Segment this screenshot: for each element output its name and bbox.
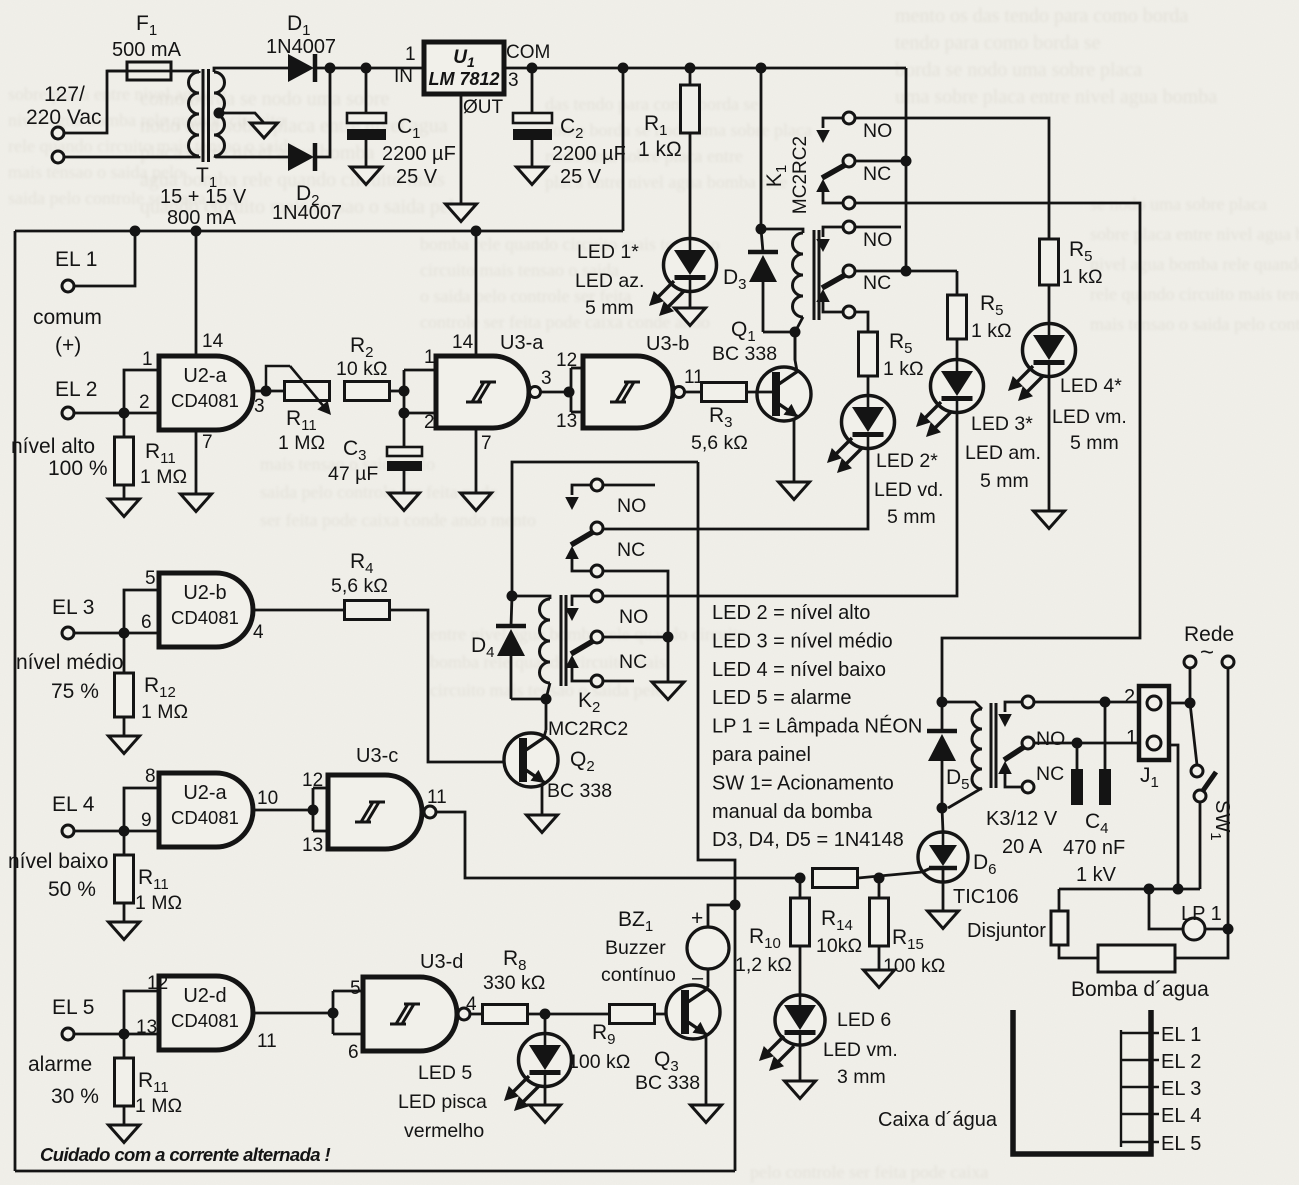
wire U1 com to ground [460, 94, 463, 204]
wire input to fuse [64, 71, 127, 133]
gate U2-d CD4081 [136, 973, 277, 1052]
comum + rail [15, 230, 623, 233]
svg-text:SW 1= Acionamento: SW 1= Acionamento [712, 772, 894, 794]
fuse F1 500 mA [107, 12, 199, 80]
svg-text:47 µF: 47 µF [328, 463, 378, 485]
svg-text:1 MΩ: 1 MΩ [278, 432, 325, 454]
wire +12V down to K1 NC rail [905, 68, 908, 271]
wire to U3-a pins [403, 370, 406, 413]
wire K1 com2 to R5 LED2 [855, 312, 868, 331]
K1 contact set 1 [816, 112, 892, 209]
K2 contact set 2 [565, 590, 648, 687]
tank electrode rail [1121, 1024, 1201, 1155]
ground D6 [928, 882, 959, 929]
svg-text:10 kΩ: 10 kΩ [336, 358, 387, 380]
svg-text:mais tensao o saida pelo contr: mais tensao o saida pelo controle [1090, 314, 1299, 334]
ground R12 [109, 717, 140, 754]
svg-text:127/: 127/ [44, 83, 85, 106]
svg-text:NC: NC [1036, 763, 1064, 785]
junction EL4 [119, 826, 130, 837]
svg-text:ser feita pode caixa conde and: ser feita pode caixa conde ando mento [260, 510, 536, 530]
electrode EL3 nivel medio [16, 596, 124, 703]
ground R11 EL4 [109, 903, 140, 940]
wire U3-c to SCR gate line [436, 812, 800, 878]
svg-text:LED 2*: LED 2* [876, 450, 938, 472]
svg-text:U3-c: U3-c [356, 745, 398, 767]
svg-text:NC: NC [863, 163, 891, 185]
svg-text:1: 1 [142, 349, 153, 370]
gate U2-c CD4081 (labelled U2-a) [141, 766, 278, 847]
svg-text:5 mm: 5 mm [887, 506, 936, 528]
ground LED1 [675, 291, 706, 326]
junction R8/LED5 [527, 1009, 609, 1020]
wire secondary bottom to D2 [214, 156, 288, 157]
resistor R9 100k [568, 1005, 655, 1074]
switch SW1 [1190, 703, 1233, 841]
svg-text:BC 338: BC 338 [635, 1072, 700, 1094]
pump feed wire [1059, 884, 1200, 895]
ground U1 [446, 204, 477, 222]
svg-text:13: 13 [302, 835, 323, 856]
resistor R5 1k (LED4) [1040, 238, 1103, 288]
svg-text:LED pisca: LED pisca [398, 1091, 487, 1113]
wire EL2 to U2-a pins [124, 370, 159, 413]
svg-text:EL 1: EL 1 [1161, 1024, 1201, 1046]
svg-text:5 mm: 5 mm [980, 470, 1029, 492]
svg-text:3: 3 [254, 396, 265, 417]
svg-text:13: 13 [556, 411, 577, 432]
wire K3 common to J1 [1034, 701, 1139, 704]
svg-text:12: 12 [147, 973, 168, 994]
svg-text:6: 6 [141, 612, 152, 633]
junction R15 top [874, 873, 885, 884]
svg-text:MC2RC2: MC2RC2 [790, 136, 811, 214]
junction R10 top [795, 873, 806, 884]
svg-text:9: 9 [141, 810, 152, 831]
svg-text:3: 3 [541, 368, 552, 389]
svg-text:EL 2: EL 2 [1161, 1051, 1201, 1073]
svg-text:1 kΩ: 1 kΩ [971, 320, 1012, 342]
svg-text:NO: NO [617, 495, 646, 517]
svg-text:2: 2 [424, 412, 435, 433]
relay K1 coil MC2RC2 [761, 136, 819, 332]
svg-text:TIC106: TIC106 [953, 886, 1019, 908]
ground C1 [351, 167, 382, 185]
transistor Q1 BC338 [712, 318, 811, 482]
svg-text:1N4007: 1N4007 [272, 202, 342, 224]
svg-text:5: 5 [350, 978, 361, 999]
svg-text:100 kΩ: 100 kΩ [568, 1051, 630, 1073]
K3 contact set [998, 696, 1065, 793]
svg-text:2: 2 [139, 392, 150, 413]
svg-text:LED 4*: LED 4* [1060, 375, 1122, 397]
svg-text:NO: NO [863, 229, 892, 251]
wire U3-a pin7 [475, 428, 478, 493]
wire U1 out [504, 67, 906, 70]
junction EL3 [119, 628, 130, 639]
caution note [40, 1144, 331, 1165]
svg-text:CD4081: CD4081 [171, 390, 239, 411]
legend text [712, 602, 922, 851]
wire input to transformer primary [64, 156, 199, 157]
svg-text:Caixa d´água: Caixa d´água [878, 1109, 998, 1131]
svg-text:CD4081: CD4081 [171, 1010, 239, 1031]
ground LED4 [1034, 511, 1065, 529]
ground C3 [389, 493, 420, 511]
svg-text:rele quando circuito mais tens: rele quando circuito mais tensao [1090, 284, 1299, 304]
wire U2-a out [253, 386, 285, 397]
wire EL3 to U2-b pins [124, 590, 159, 633]
ground LED5 [530, 1086, 561, 1123]
svg-text:5,6 kΩ: 5,6 kΩ [691, 432, 748, 454]
trimmer R11 1M [266, 366, 331, 454]
wire R2 to U3-a [389, 390, 404, 393]
svg-text:100 %: 100 % [48, 457, 108, 480]
svg-text:mais tensao o saida pelo: mais tensao o saida pelo [8, 162, 183, 182]
svg-text:1 MΩ: 1 MΩ [135, 892, 182, 914]
svg-text:+: + [691, 907, 703, 930]
svg-text:D3, D4, D5 = 1N4148: D3, D4, D5 = 1N4148 [712, 829, 904, 851]
wire K1 NC2 to R5 LED3 [855, 266, 957, 277]
transistor Q3 BC338 [635, 969, 720, 1105]
gate U2-a CD4081 [139, 331, 265, 453]
svg-text:rele quando circuito mais tens: rele quando circuito mais tensao o saida [8, 136, 296, 156]
diode D1 1N4007 [266, 12, 336, 82]
svg-text:6: 6 [348, 1042, 359, 1063]
junction R1 top [685, 63, 696, 74]
Rede AC terminals [1184, 623, 1234, 668]
svg-text:7: 7 [481, 433, 492, 454]
LED 2 green 5mm [827, 396, 943, 529]
regulator U1 LM7812 [394, 42, 550, 118]
junction K2 coil/D4 [507, 591, 518, 602]
ground R11 EL5 [109, 1106, 140, 1143]
svg-text:10: 10 [257, 788, 278, 809]
svg-text:EL 5: EL 5 [1161, 1133, 1201, 1155]
svg-text:1,2 kΩ: 1,2 kΩ [735, 954, 792, 976]
junction U3-a in [399, 386, 410, 397]
svg-text:11: 11 [257, 1031, 277, 1052]
resistor R5 1k (LED3) [948, 271, 1012, 342]
svg-text:sobre placa entre nivel agua: sobre placa entre nivel agua [8, 84, 209, 104]
U3-c output bubble [424, 806, 436, 818]
ground R11 EL2 [109, 485, 140, 517]
svg-text:220 Vac: 220 Vac [26, 106, 102, 129]
svg-text:1: 1 [1126, 727, 1137, 749]
svg-text:EL 2: EL 2 [55, 378, 97, 401]
svg-text:1 MΩ: 1 MΩ [141, 701, 188, 723]
junction EL2 [119, 408, 130, 419]
wire EL5 to U2-d pins [124, 991, 159, 1034]
svg-text:3: 3 [508, 70, 519, 91]
wire gate to D6 [858, 872, 922, 878]
svg-text:NO: NO [863, 120, 892, 142]
wire R1 to LED1 [689, 133, 692, 240]
svg-text:Bomba d´agua: Bomba d´agua [1071, 978, 1209, 1001]
gate U3-d Schmitt [348, 951, 477, 1063]
svg-text:COM: COM [506, 42, 550, 63]
diode D2 1N4007 [272, 143, 342, 224]
wire K2 com2 stub [603, 680, 634, 683]
svg-text:2: 2 [1124, 686, 1135, 708]
svg-text:1 MΩ: 1 MΩ [140, 466, 187, 488]
svg-text:EL 4: EL 4 [1161, 1105, 1201, 1127]
ground R15 [864, 946, 895, 988]
svg-text:U3-d: U3-d [420, 951, 463, 973]
svg-text:470 nF: 470 nF [1063, 837, 1125, 859]
diode D5 1N4148 [927, 702, 970, 808]
svg-text:LED 5: LED 5 [418, 1062, 472, 1084]
wire U3-d to R8 [470, 1013, 483, 1016]
svg-text:BC 338: BC 338 [712, 343, 777, 365]
ground Q2 [527, 815, 558, 833]
ground Q3 [691, 1105, 722, 1123]
svg-text:1: 1 [405, 44, 416, 65]
svg-text:25 V: 25 V [396, 166, 438, 188]
svg-text:mento os das tendo para como b: mento os das tendo para como borda [895, 5, 1188, 27]
svg-text:nivel agua bomba rele quando c: nivel agua bomba rele quando circuito ma… [1090, 254, 1299, 274]
svg-text:das tendo para como borda se: das tendo para como borda se [545, 94, 758, 114]
water tank Caixa d'agua [878, 1010, 1151, 1154]
svg-text:LED vd.: LED vd. [874, 479, 943, 501]
ground Q1 [779, 482, 810, 500]
gate U2-b CD4081 [141, 568, 264, 647]
gate U3-a Schmitt [424, 332, 552, 454]
wire U2-a pin14 [191, 226, 202, 357]
svg-text:pelo controle ser feita pode c: pelo controle ser feita pode caixa [750, 1162, 988, 1182]
diode D4 1N4148 [471, 596, 546, 699]
resistor R1 1k [638, 68, 700, 161]
LED 6 red 3mm [759, 995, 898, 1088]
svg-text:EL 4: EL 4 [52, 793, 95, 816]
svg-text:20 A: 20 A [1002, 836, 1043, 858]
svg-text:Cuidado com a corrente alterna: Cuidado com a corrente alternada ! [40, 1144, 331, 1165]
svg-text:alarme: alarme [28, 1053, 92, 1076]
junction K1 coil/D3 [756, 224, 767, 235]
svg-text:Disjuntor: Disjuntor [967, 920, 1046, 942]
svg-text:2200 µF: 2200 µF [382, 143, 456, 165]
AC input terminals 127/220 Vac [26, 83, 102, 163]
svg-text:NC: NC [863, 272, 891, 294]
resistor R11 1M (EL4) [115, 831, 183, 914]
svg-text:CD4081: CD4081 [171, 607, 239, 628]
svg-text:500 mA: 500 mA [112, 39, 182, 61]
wire U3-a pins [404, 370, 436, 413]
svg-text:nível baixo: nível baixo [8, 850, 108, 873]
diode D3 1N4148 [723, 229, 778, 332]
capacitor C4 470nF 1kV [1063, 702, 1125, 886]
svg-text:15 + 15 V: 15 + 15 V [160, 186, 247, 208]
center tap wire [214, 108, 265, 124]
svg-text:uma sobre placa entre nivel ag: uma sobre placa entre nivel agua bomba [895, 86, 1217, 108]
wire secondary top to D1 [214, 68, 288, 72]
svg-text:11: 11 [684, 367, 704, 388]
relay K2 coil MC2RC2 [512, 595, 628, 740]
svg-text:30 %: 30 % [51, 1085, 99, 1108]
svg-text:como borda se nodo uma sobre p: como borda se nodo uma sobre placa [545, 120, 812, 140]
wire K1 NO1 to R5 LED4 [855, 118, 1049, 239]
ground U2-a [181, 494, 212, 512]
svg-text:LED 3 = nível médio: LED 3 = nível médio [712, 630, 893, 652]
resistor R11 1M (EL5) [115, 1034, 183, 1117]
junction C2 [527, 63, 538, 74]
svg-text:10kΩ: 10kΩ [816, 935, 862, 957]
junction C4 right [1100, 697, 1111, 708]
relay K3 coil 12V 20A [942, 702, 1058, 858]
buzzer BZ1 [601, 905, 735, 989]
svg-text:U2-d: U2-d [183, 985, 226, 1007]
wire R4 to Q2 base [389, 610, 518, 762]
electrode EL4 nivel baixo [8, 793, 124, 901]
svg-text:12: 12 [556, 350, 577, 371]
capacitor C2 2200uF 25V [513, 68, 626, 188]
junction D5 top [937, 697, 948, 708]
svg-text:ØUT: ØUT [463, 97, 504, 118]
svg-text:LED 4 = nível baixo: LED 4 = nível baixo [712, 659, 886, 681]
svg-text:U2-b: U2-b [183, 582, 226, 604]
wire U3-a to U3-b [540, 368, 583, 412]
svg-text:IN: IN [394, 66, 413, 87]
svg-text:50 %: 50 % [48, 878, 96, 901]
resistor R14 10k [813, 869, 863, 958]
wire K1 com1 to K3 circuit [855, 203, 1140, 702]
svg-text:NC: NC [617, 539, 645, 561]
wire U2-d out [253, 991, 363, 1034]
svg-text:LED 2 = nível alto: LED 2 = nível alto [712, 602, 870, 624]
connector J1 [1124, 686, 1169, 791]
svg-text:2200 µF: 2200 µF [552, 143, 626, 165]
svg-text:1: 1 [424, 347, 435, 368]
svg-text:5 mm: 5 mm [585, 297, 634, 319]
svg-text:LP 1: LP 1 [1181, 903, 1222, 925]
svg-text:1 kV: 1 kV [1076, 864, 1117, 886]
resistor R4 5,6k [331, 550, 390, 620]
wire U3-a pin14 [471, 226, 482, 357]
right frame wire to K2 [698, 462, 735, 1171]
wire R5 to LED3 [956, 339, 959, 360]
wire U2-b out to R4 [253, 609, 345, 612]
circuit breaker Disjuntor [967, 889, 1098, 958]
resistor R10 1,2k [735, 878, 810, 976]
junction D1/D2 [325, 63, 336, 74]
junction EL5 [119, 1029, 130, 1040]
resistor R3 5,6k [691, 383, 748, 455]
wire R9 to Q3 [654, 1013, 681, 1016]
svg-text:LED 6: LED 6 [837, 1009, 891, 1031]
junction C4 left [1072, 738, 1083, 749]
svg-text:LED 3*: LED 3* [971, 413, 1033, 435]
wire LED4 to ground [1048, 376, 1051, 511]
svg-text:(+): (+) [55, 334, 81, 357]
gate U3-b Schmitt [556, 333, 704, 432]
transformer T1 15+15V 800mA [160, 69, 247, 229]
svg-text:LED az.: LED az. [575, 270, 644, 292]
svg-text:EL 1: EL 1 [55, 248, 97, 271]
svg-text:1 MΩ: 1 MΩ [135, 1095, 182, 1117]
resistor R15 100k [870, 878, 946, 977]
wire +12V down to comum rail [622, 68, 625, 231]
LED 4 red 5mm [1008, 324, 1127, 455]
gate U3-c Schmitt [302, 745, 447, 856]
wire R5 to LED4 [1048, 285, 1051, 325]
svg-text:1 kΩ: 1 kΩ [1062, 266, 1103, 288]
svg-text:4: 4 [253, 622, 264, 643]
svg-text:~: ~ [1200, 639, 1214, 666]
wire Rede right down [1175, 668, 1228, 958]
svg-text:U3-b: U3-b [646, 333, 689, 355]
resistor R2 10k [336, 334, 390, 401]
svg-text:LM 7812: LM 7812 [428, 69, 499, 89]
svg-text:NC: NC [619, 651, 647, 673]
wire LED2 to K2 NC1 [602, 448, 868, 529]
junction C1 [361, 63, 372, 74]
svg-text:K3/12 V: K3/12 V [986, 808, 1058, 830]
junction K1 feed [756, 63, 767, 74]
wire D2 up to node [317, 68, 330, 157]
junction buzzer +12V [730, 900, 741, 911]
svg-text:para painel: para painel [712, 744, 811, 766]
neon lamp LP1 [1149, 889, 1234, 940]
svg-text:12: 12 [302, 770, 323, 791]
svg-text:EL 3: EL 3 [52, 596, 94, 619]
capacitor C3 47uF [328, 408, 422, 494]
svg-text:8: 8 [145, 766, 156, 787]
svg-text:1N4007: 1N4007 [266, 36, 336, 58]
U3-d output bubble [458, 1008, 470, 1020]
svg-text:EL 3: EL 3 [1161, 1078, 1201, 1100]
svg-text:14: 14 [202, 331, 224, 352]
svg-text:contínuo: contínuo [601, 964, 676, 986]
wire U3-b to R3 [685, 391, 702, 394]
wire K2 NO1 stub [603, 484, 655, 487]
svg-text:25 V: 25 V [560, 166, 602, 188]
wire K1 NC1 to +12V [855, 160, 906, 163]
water pump Bomba d'agua [1071, 945, 1209, 1001]
electrode EL5 alarme [28, 996, 124, 1108]
left frame wire [14, 231, 17, 1171]
K1 contact set 2 [816, 221, 892, 318]
svg-text:–: – [692, 967, 704, 989]
svg-text:13: 13 [136, 1017, 157, 1038]
svg-text:5 mm: 5 mm [1070, 432, 1119, 454]
capacitor C1 2200uF 25V [347, 68, 456, 188]
svg-text:borda se nodo uma sobre placa: borda se nodo uma sobre placa [895, 59, 1142, 81]
wire J1 pin2 to Rede [1169, 698, 1196, 709]
wire D1 to U1 [317, 67, 424, 70]
svg-text:U2-a: U2-a [183, 782, 227, 804]
U3-a output bubble [530, 387, 541, 398]
svg-text:MC2RC2: MC2RC2 [548, 718, 628, 740]
wire U2-a pin7 [195, 428, 198, 494]
svg-text:800 mA: 800 mA [167, 207, 237, 229]
wire K2 NC2 [603, 636, 668, 639]
junction K2 coil bottom [541, 694, 552, 731]
svg-text:330 kΩ: 330 kΩ [483, 972, 545, 994]
wire K1 node down [760, 68, 763, 229]
wire J1 pin1 right [1169, 745, 1178, 889]
wire K2 com1 to ground [603, 571, 674, 682]
svg-text:NO: NO [1036, 728, 1065, 750]
wire K1 NO2 stub [855, 226, 901, 229]
K2 contact set 1 [565, 479, 646, 577]
svg-text:3 mm: 3 mm [837, 1066, 886, 1088]
svg-text:5: 5 [145, 568, 156, 589]
resistor R12 1M [115, 633, 189, 723]
resistor R11 1M (EL2) [115, 413, 188, 488]
U3-b output bubble [674, 387, 685, 398]
svg-text:U2-a: U2-a [183, 365, 227, 387]
svg-text:1 kΩ: 1 kΩ [883, 358, 924, 380]
